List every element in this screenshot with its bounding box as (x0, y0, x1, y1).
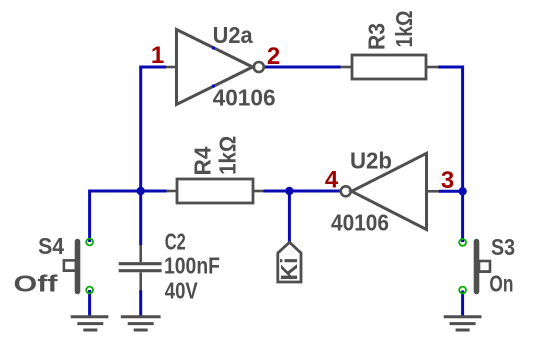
wire: R4 right to U2b output bubble (264, 190, 341, 193)
ground under S4 (71, 317, 109, 330)
svg-text:40106: 40106 (331, 210, 389, 236)
svg-text:C2: C2 (165, 229, 186, 255)
switch S4 (push button, Off) (14, 233, 94, 297)
junction node B (Ki net) (285, 187, 293, 195)
ground under C2 (121, 317, 161, 330)
wire: node A left to corner and down to S4 top terminal (90, 191, 167, 242)
wire: R3 right, corner down to S3 top terminal (438, 67, 463, 242)
svg-text:1kΩ: 1kΩ (215, 136, 241, 175)
wire: C2 bottom pin to ground (139, 290, 142, 318)
junction node C (pin3 net) (458, 187, 466, 195)
switch S3 (push button, On) (459, 234, 515, 297)
wire: pin1 net left vertical from U2a input down to node A (141, 67, 166, 191)
pin 4 of U2b (325, 167, 339, 194)
wire: S4 bottom terminal to ground (88, 290, 91, 318)
svg-text:R3: R3 (364, 23, 390, 50)
svg-text:U2a: U2a (213, 22, 253, 48)
svg-text:1kΩ: 1kΩ (391, 11, 417, 48)
capacitor C2 100nF 40V (119, 229, 220, 304)
svg-text:2: 2 (267, 43, 280, 70)
svg-text:100nF: 100nF (164, 253, 220, 279)
inverter U2a (40106 Schmitt inverter, top) (166, 22, 276, 110)
svg-text:S3: S3 (491, 234, 515, 260)
pin 2 of U2a (267, 43, 280, 70)
svg-text:On: On (489, 271, 513, 297)
inverter U2b (40106 Schmitt inverter, bottom, mirrored) (331, 148, 439, 236)
resistor R4 1k (167, 136, 264, 203)
svg-text:U2b: U2b (350, 148, 392, 174)
wire: node A down to C2 top pin (139, 191, 142, 245)
svg-text:R4: R4 (190, 146, 216, 175)
wire: node B down to Ki flag (288, 191, 291, 243)
wire: S3 bottom terminal to ground (461, 291, 464, 318)
global label Ki (flag) (276, 242, 302, 282)
svg-text:Off: Off (14, 271, 58, 297)
junction node A (R4/C2/S4 net) (137, 187, 145, 195)
svg-text:Ki: Ki (276, 258, 302, 281)
svg-text:40V: 40V (165, 278, 199, 304)
svg-text:4: 4 (325, 167, 339, 194)
svg-text:3: 3 (441, 167, 454, 194)
svg-text:40106: 40106 (213, 85, 276, 111)
ground under S3 (444, 317, 482, 330)
wire: pin3 stub to node C (439, 190, 463, 193)
pin 1 of U2a (151, 42, 164, 69)
wire: U2a output pin2 to R3 left (264, 66, 340, 69)
svg-text:S4: S4 (38, 233, 64, 259)
resistor R3 1k (341, 11, 439, 80)
svg-text:1: 1 (151, 42, 164, 69)
pin 3 of U2b (441, 167, 454, 194)
